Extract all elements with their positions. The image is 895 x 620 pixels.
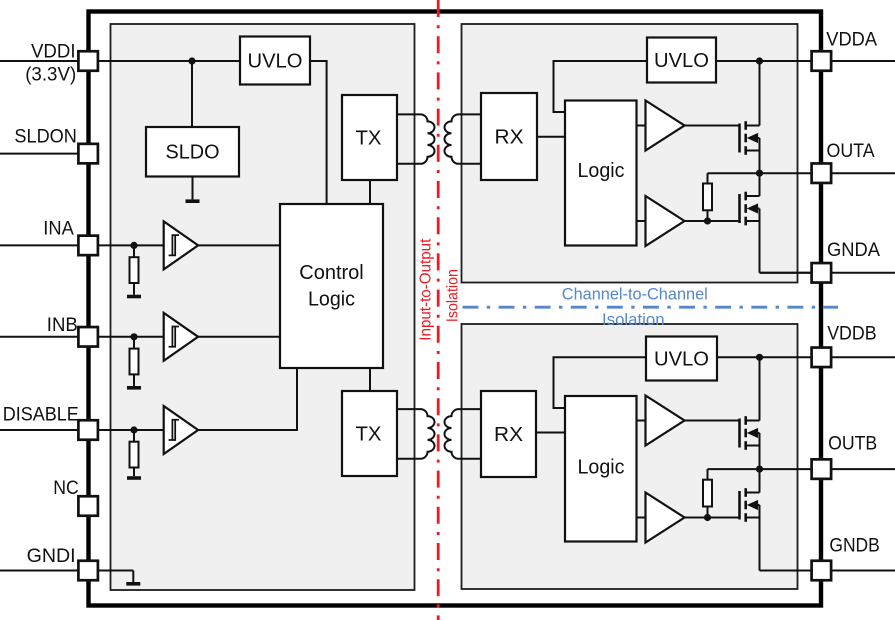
svg-text:UVLO: UVLO [654,349,709,371]
wire RX1 to logic A [537,136,566,138]
wire R4 to Q2 gate [707,210,709,221]
node VDDA junction [756,57,763,64]
wire logic A to driver A1 [636,125,646,127]
label VDDB [827,323,876,345]
transformer T1 (channel A isolation barrier) [397,114,481,163]
wire UVLO-B to VDDB [717,356,895,358]
svg-text:RX: RX [494,424,523,446]
wire INA net [0,244,165,246]
buffer U1 (INA Schmitt trigger) [164,221,198,269]
node A2 gate junction [704,217,711,224]
driver B1 (high-side buffer) [646,396,685,446]
svg-text:OUTB: OUTB [828,433,877,455]
transistor Q4 (channel B low-side NMOS) [740,469,813,570]
buffer U3 (DISABLE Schmitt trigger) [164,406,198,454]
label Channel-to-Channel (blue) [562,285,708,303]
label DISABLE [3,404,79,426]
svg-text:(3.3V): (3.3V) [25,64,76,86]
block Logic B [565,396,637,542]
pin GNDA [812,263,832,283]
ground GNDI [126,582,140,586]
wire R1 to ground [133,283,135,295]
label INB [47,314,78,336]
channel-to-channel isolation boundary (blue dash-dot) [463,306,839,309]
svg-text:VDDI: VDDI [31,41,76,63]
block RX2 [481,391,536,477]
wire OUTA to R4 [707,173,709,183]
pin SLDON [78,144,98,164]
pin VDDI [78,51,98,71]
node VDDI-SLDO junction [188,57,195,64]
transistor Q3 (channel B high-side NMOS) [740,357,760,469]
wire OUTB to R5 [707,469,709,480]
label GNDA [827,239,880,261]
label GNDB [829,535,879,557]
label Isolation (blue) [602,311,665,329]
resistor R2 (INB pulldown) [130,349,139,375]
pin INB [78,327,98,347]
svg-text:GNDB: GNDB [829,535,879,557]
wire INB net [0,336,165,338]
wire driver A2 to Q2 gate [683,220,740,222]
svg-text:UVLO: UVLO [248,51,303,73]
pin GNDB [812,561,832,581]
ground SLDO stub [192,177,194,200]
svg-text:Channel-to-Channel: Channel-to-Channel [562,285,708,303]
wire SLDO supply [191,61,193,127]
wire GNDB net [760,570,895,572]
label SLDON [14,126,77,148]
svg-text:DISABLE: DISABLE [3,404,79,426]
wire GNDI net [0,571,133,583]
driver A1 (high-side buffer) [646,101,685,151]
label Isolation (red, rotated) [445,269,462,322]
block Logic A [565,101,637,246]
svg-text:GNDI: GNDI [27,545,76,567]
ground SLDO [186,199,200,203]
block UVLO (input side) [240,37,310,85]
input-to-output isolation boundary (red dash-dot) [437,0,440,620]
svg-text:VDDA: VDDA [826,29,877,51]
wire OUTA net [708,172,895,174]
wire R3 to ground [133,468,135,477]
svg-text:Logic: Logic [308,289,355,311]
node DISABLE junction [130,426,137,433]
pin INA [78,236,98,256]
buffer U2 (INB Schmitt trigger) [164,313,198,361]
channel B functional block (gray region) [462,324,798,589]
node OUTA junction [756,170,763,177]
svg-text:INA: INA [43,218,74,240]
label GNDI [27,545,76,567]
wire INA pulldown stub [133,245,135,257]
node INA junction [130,242,137,249]
wire control logic to TX1 [369,180,371,205]
label INA [43,218,74,240]
label NC [53,477,79,499]
wire INB buffer to control logic [198,336,281,338]
wire UVLO-A to logic A [554,61,648,112]
wire driver B2 to Q4 gate [683,517,740,519]
svg-text:Input-to-Output: Input-to-Output [418,238,435,341]
wire control logic to TX2 [369,367,371,391]
pin OUTA [812,163,832,183]
svg-text:GNDA: GNDA [827,239,880,261]
svg-text:OUTA: OUTA [827,140,875,162]
label OUTA [827,140,875,162]
ground INA pulldown [127,295,141,299]
node OUTB junction [756,466,763,473]
svg-text:Logic: Logic [578,160,625,182]
wire OUTB net [708,468,895,470]
svg-text:VDDB: VDDB [827,323,876,345]
svg-text:TX: TX [356,128,382,150]
svg-text:SLDO: SLDO [166,142,220,164]
resistor R3 (DISABLE pulldown) [130,442,139,468]
resistor R1 (INA pulldown) [130,257,139,283]
wire R5 to Q4 gate [707,507,709,518]
wire UVLO-B to logic B [554,357,647,408]
wire INA buffer to control logic [198,244,281,246]
svg-text:TX: TX [356,424,382,446]
wire driver B1 to Q3 gate [683,420,740,422]
pin VDDB [812,348,832,368]
svg-text:Isolation: Isolation [602,311,665,329]
block TX2 [342,391,397,476]
wire DISABLE net [0,429,165,431]
ground DISABLE pulldown [127,476,141,480]
wire UVLO to control logic [310,61,328,204]
label VDDA [826,29,877,51]
node VDDB junction [756,354,763,361]
label (3.3V) [25,64,76,86]
wire RX2 to logic B [536,432,566,434]
wire R2 to ground [133,374,135,386]
svg-text:Isolation: Isolation [445,269,462,322]
ground INB pulldown [127,386,141,390]
svg-text:INB: INB [47,314,78,336]
svg-text:RX: RX [495,127,524,149]
IC package border [89,12,822,606]
wire DISABLE buffer to control logic [198,367,299,431]
block Control Logic [280,204,383,368]
svg-text:Logic: Logic [578,457,625,479]
wire logic A to driver A2 [636,220,646,222]
driver B2 (low-side buffer) [646,493,685,543]
resistor R5 (OUTB) [703,480,712,507]
wire UVLO-A to VDDA [716,60,895,62]
wire driver A1 to Q1 gate [683,125,740,127]
node INB junction [130,333,137,340]
block UVLO B [646,337,717,381]
channel A functional block (gray region) [462,24,798,283]
wire INB pulldown stub [133,337,135,349]
pin DISABLE [78,420,98,440]
transistor Q2 (channel A low-side NMOS) [740,173,813,273]
resistor R4 (OUTA) [703,184,712,211]
svg-text:UVLO: UVLO [654,50,709,72]
block UVLO A [647,38,716,83]
svg-text:NC: NC [53,477,79,499]
block TX1 [342,95,397,180]
pin OUTB [812,459,832,479]
label VDDI [31,41,76,63]
block SLDO [146,127,239,177]
svg-text:Control: Control [299,262,364,284]
wire GNDA net [760,272,895,274]
pin NC [78,496,98,516]
wire logic B to driver B2 [636,517,646,519]
wire VDDI net [0,60,240,62]
input-side functional block (gray region) [111,24,415,590]
wire SLDON stub [0,153,88,155]
transistor Q1 (channel A high-side NMOS) [740,61,760,173]
node B2 gate junction [704,514,711,521]
label Input-to-Output (red, rotated) [418,238,435,341]
label OUTB [828,433,877,455]
driver A2 (low-side buffer) [646,196,685,246]
transformer T2 (channel B isolation barrier) [397,409,481,459]
svg-text:SLDON: SLDON [14,126,77,148]
pin VDDA [812,51,832,71]
pin GNDI [78,561,98,581]
block RX1 [481,93,537,180]
wire logic B to driver B1 [636,420,646,422]
wire DISABLE pulldown stub [133,430,135,442]
